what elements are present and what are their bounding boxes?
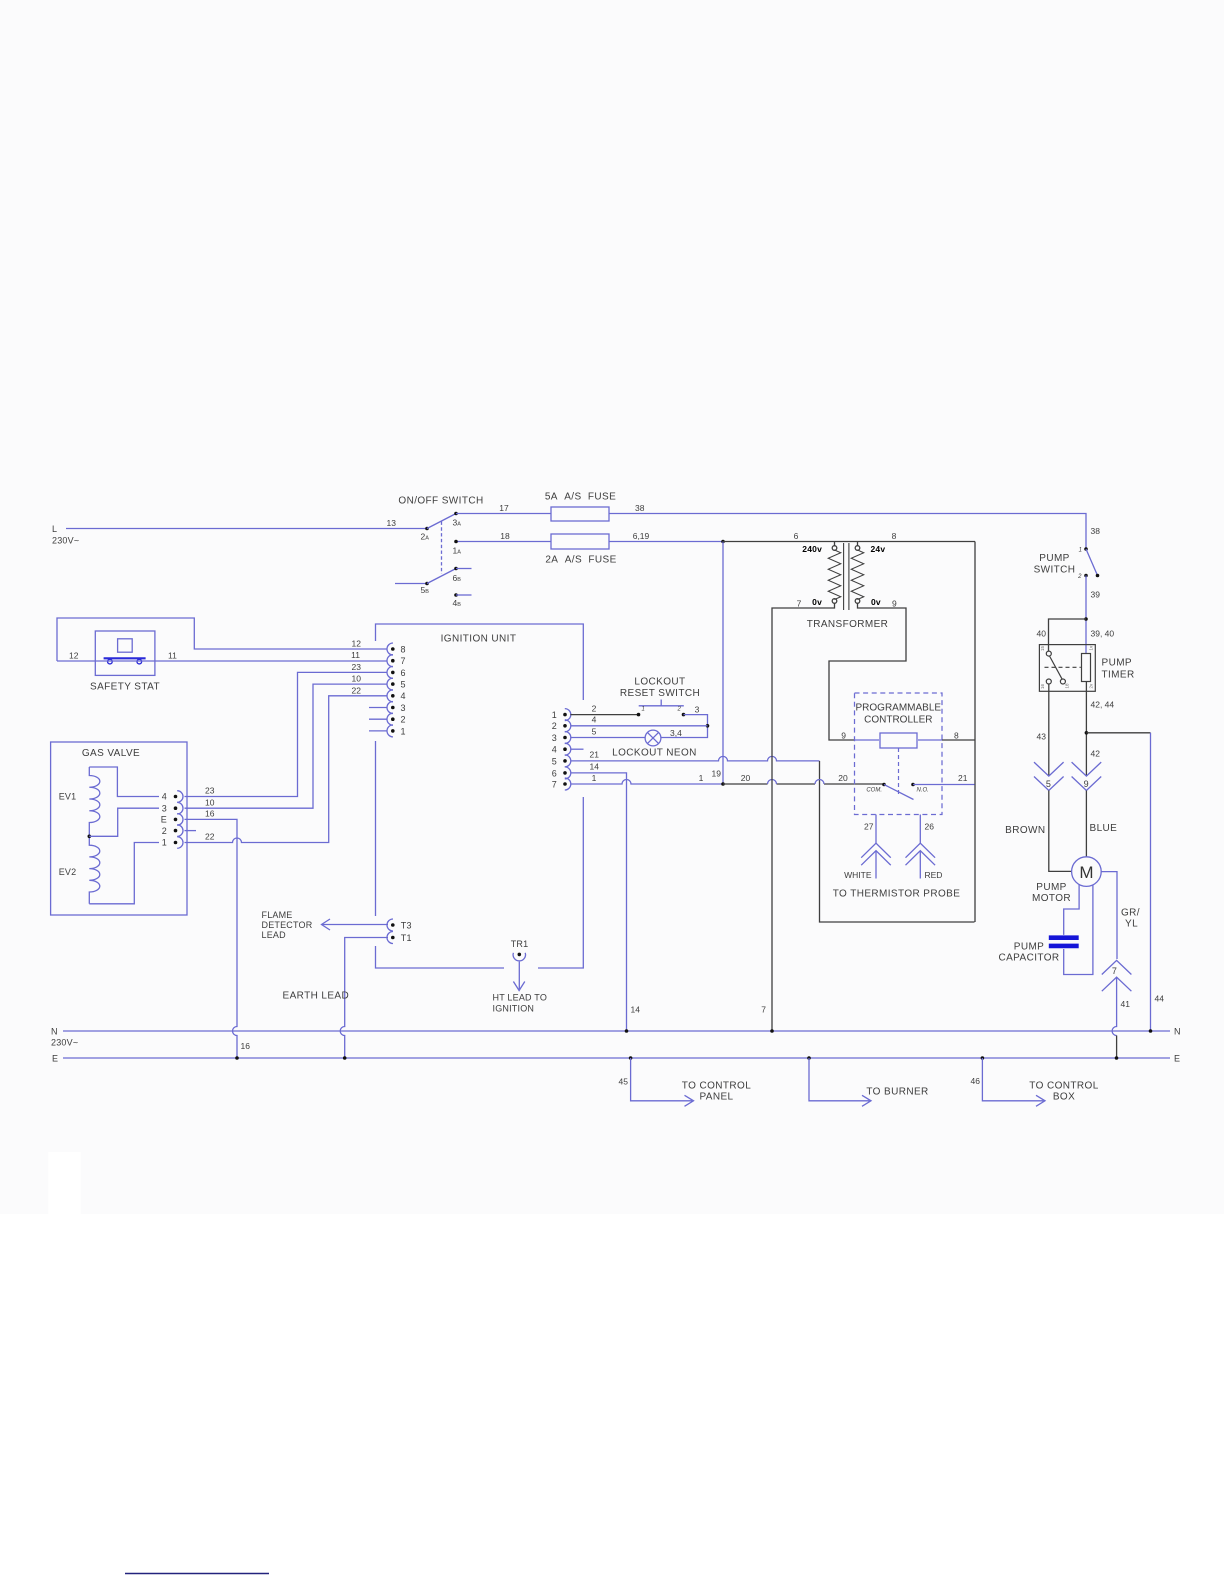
wire 17 <box>456 503 551 514</box>
svg-text:240v: 240v <box>802 544 822 554</box>
svg-text:N: N <box>1174 1027 1181 1037</box>
svg-text:EV2: EV2 <box>59 867 77 877</box>
svg-text:3: 3 <box>695 705 700 715</box>
ignition unit right pins 1-7 <box>552 709 571 790</box>
connector T3 flame detector <box>387 919 412 931</box>
svg-text:COM.: COM. <box>866 787 882 793</box>
svg-text:1: 1 <box>642 707 645 713</box>
svg-text:PUMP: PUMP <box>1036 882 1067 893</box>
svg-text:N.O.: N.O. <box>917 787 929 793</box>
svg-text:14: 14 <box>590 762 600 772</box>
svg-text:SAFETY STAT: SAFETY STAT <box>90 682 160 693</box>
lamp lockout neon <box>612 728 697 759</box>
svg-text:ON/OFF SWITCH: ON/OFF SWITCH <box>398 496 483 507</box>
svg-text:42, 44: 42, 44 <box>1091 700 1115 710</box>
svg-text:BLUE: BLUE <box>1090 823 1118 834</box>
svg-text:39, 40: 39, 40 <box>1091 629 1115 639</box>
svg-text:T3: T3 <box>401 920 412 930</box>
coil EV2 <box>59 836 100 904</box>
svg-text:3: 3 <box>552 733 557 743</box>
wire 1 ignition pin7 to node 19 <box>570 773 724 786</box>
svg-text:43: 43 <box>1037 732 1047 742</box>
svg-text:23: 23 <box>352 662 362 672</box>
svg-text:GR/: GR/ <box>1121 908 1140 919</box>
svg-text:13: 13 <box>387 518 397 528</box>
svg-text:TR1: TR1 <box>511 939 529 949</box>
wire EV1 top to terminal 4 <box>89 767 159 797</box>
pump timer box <box>1039 645 1134 692</box>
svg-text:4: 4 <box>592 715 597 725</box>
svg-text:10: 10 <box>352 674 362 684</box>
arrow to burner <box>807 1056 928 1106</box>
svg-text:24v: 24v <box>871 544 886 554</box>
svg-text:MOTOR: MOTOR <box>1032 893 1071 904</box>
wire 11 safety stat to ignition pin 7 <box>57 650 387 661</box>
svg-text:20: 20 <box>741 773 751 783</box>
connector T1 earth <box>387 932 412 944</box>
svg-text:3: 3 <box>401 703 406 713</box>
svg-text:E: E <box>1174 1054 1180 1064</box>
svg-text:1: 1 <box>552 710 557 720</box>
svg-text:4: 4 <box>401 691 406 701</box>
svg-text:6: 6 <box>552 768 557 778</box>
wire 4 ignition pin2 to node <box>570 715 707 726</box>
wire 12 safety stat to ignition pin 8 <box>57 618 387 661</box>
svg-text:M: M <box>1079 863 1093 882</box>
svg-text:FLAME: FLAME <box>262 910 293 920</box>
svg-text:5: 5 <box>592 726 597 736</box>
svg-text:BOX: BOX <box>1053 1092 1075 1103</box>
flame detector lead arrow <box>262 910 389 940</box>
svg-text:38: 38 <box>635 503 645 513</box>
svg-text:1: 1 <box>699 773 704 783</box>
svg-text:5: 5 <box>552 756 557 766</box>
svg-text:8: 8 <box>954 731 959 741</box>
wire 14 ignition pin6 to N rail <box>570 762 640 1033</box>
switch pump switch <box>1034 547 1100 580</box>
svg-text:38: 38 <box>1091 526 1101 536</box>
label to thermistor probe <box>833 889 961 900</box>
svg-text:0v: 0v <box>871 597 881 607</box>
svg-text:2v: 2v <box>1088 683 1093 689</box>
svg-text:22: 22 <box>352 685 362 695</box>
pump capacitor wires <box>1064 884 1093 974</box>
svg-text:2: 2 <box>552 721 557 731</box>
fuse F1 5A A/S FUSE <box>545 492 616 522</box>
svg-text:N: N <box>51 1027 58 1037</box>
svg-text:9: 9 <box>892 599 897 609</box>
connector 26 RED thermistor <box>906 815 943 881</box>
svg-text:21: 21 <box>958 773 968 783</box>
capacitor pump capacitor <box>998 938 1078 964</box>
svg-text:5: 5 <box>1046 779 1051 789</box>
svg-text:42: 42 <box>1091 749 1101 759</box>
wire 22 gas valve 1 to ignition pin 4 <box>185 685 388 842</box>
svg-text:1: 1 <box>401 726 406 736</box>
svg-text:BROWN: BROWN <box>1005 825 1045 836</box>
svg-text:8: 8 <box>892 531 897 541</box>
svg-text:2: 2 <box>1077 574 1082 580</box>
svg-text:4: 4 <box>162 792 167 802</box>
wire GR/YL pump motor to connector 7 <box>1101 872 1140 959</box>
wire 10 gas valve 3 to ignition pin 5 <box>185 674 388 809</box>
svg-text:6: 6 <box>794 531 799 541</box>
svg-text:3,4: 3,4 <box>670 728 682 738</box>
svg-text:10: 10 <box>205 797 215 807</box>
wire 38 fuse to pump switch <box>609 503 1100 549</box>
wire earth lead T1 to E rail <box>283 938 389 1060</box>
svg-text:12: 12 <box>352 639 362 649</box>
svg-text:18: 18 <box>1065 683 1070 689</box>
transformer primary winding 240v <box>802 544 841 604</box>
svg-text:1: 1 <box>592 773 597 783</box>
transformer core <box>844 543 849 610</box>
svg-text:GAS VALVE: GAS VALVE <box>82 748 140 759</box>
svg-text:2: 2 <box>592 704 597 714</box>
svg-text:6: 6 <box>401 668 406 678</box>
connector 5 brown <box>1034 762 1064 790</box>
svg-text:IGNITION UNIT: IGNITION UNIT <box>441 634 517 645</box>
svg-text:7: 7 <box>401 656 406 666</box>
svg-text:20: 20 <box>838 773 848 783</box>
switch SW1 ON/OFF SWITCH <box>387 496 484 609</box>
svg-text:7: 7 <box>552 779 557 789</box>
coil EV1 <box>59 767 100 836</box>
svg-text:HT LEAD TO: HT LEAD TO <box>493 993 548 1003</box>
wire 8 transformer 24v to controller <box>918 542 975 923</box>
svg-text:PUMP: PUMP <box>1014 942 1045 953</box>
svg-text:TIMER: TIMER <box>1102 670 1135 681</box>
svg-text:LOCKOUT: LOCKOUT <box>634 677 685 688</box>
wire 19 fused feed down to node 19 <box>712 542 723 785</box>
svg-text:3: 3 <box>162 803 167 813</box>
svg-text:1: 1 <box>162 838 167 848</box>
svg-text:CONTROLLER: CONTROLLER <box>864 715 932 726</box>
svg-text:2A A/S FUSE: 2A A/S FUSE <box>545 555 616 566</box>
svg-text:44: 44 <box>1155 994 1165 1004</box>
svg-text:45: 45 <box>619 1077 629 1087</box>
svg-text:DETECTOR: DETECTOR <box>262 920 313 930</box>
wire stub ignition pin4 <box>570 748 583 750</box>
svg-text:PUMP: PUMP <box>1039 553 1070 564</box>
ignition unit box <box>376 624 584 968</box>
svg-text:15: 15 <box>1040 645 1045 651</box>
ignition unit left pins 8-1 <box>369 643 406 737</box>
wire 20 node to controller COM <box>723 773 884 784</box>
wire 3 reset switch to node 3,4 <box>661 705 709 738</box>
svg-text:EV1: EV1 <box>59 792 77 802</box>
svg-text:TRANSFORMER: TRANSFORMER <box>807 619 889 630</box>
relay contacts COM N.O. <box>866 783 929 800</box>
wire E rail earth <box>52 1054 1180 1064</box>
relay coil controller <box>880 733 917 795</box>
wire brown to pump motor <box>1005 791 1071 872</box>
svg-text:IGNITION: IGNITION <box>493 1004 535 1014</box>
wire 21 N.O. to routing <box>913 773 975 785</box>
svg-text:23: 23 <box>205 786 215 796</box>
svg-text:4: 4 <box>552 745 557 755</box>
svg-text:17: 17 <box>499 503 509 513</box>
connector 7 earth <box>1102 960 1132 991</box>
connector 27 WHITE thermistor <box>844 815 891 881</box>
svg-text:TO BURNER: TO BURNER <box>866 1087 928 1098</box>
wire 16 gas valve E to E rail <box>185 809 251 1060</box>
svg-text:19: 19 <box>712 769 722 779</box>
wire 44 to N rail <box>1086 733 1164 1033</box>
svg-text:WHITE: WHITE <box>844 870 872 880</box>
wire 21 routing to controller N.O. <box>820 761 975 922</box>
svg-text:SWITCH: SWITCH <box>1034 565 1076 576</box>
wire 2 ignition pin1 to reset switch <box>570 704 640 717</box>
svg-text:7: 7 <box>797 599 802 609</box>
wire 23 gas valve 4 to ignition pin 6 <box>185 662 388 797</box>
svg-text:L: L <box>52 524 57 534</box>
wire 40 branch to timer <box>1037 619 1086 651</box>
svg-text:9: 9 <box>1084 779 1089 789</box>
svg-text:39: 39 <box>1091 590 1101 600</box>
svg-text:T1: T1 <box>401 933 412 943</box>
svg-text:26: 26 <box>925 822 935 832</box>
svg-text:5A A/S FUSE: 5A A/S FUSE <box>545 492 616 503</box>
svg-text:1v: 1v <box>1088 645 1093 651</box>
svg-text:PANEL: PANEL <box>699 1092 733 1103</box>
svg-text:RED: RED <box>925 870 943 880</box>
svg-text:PUMP: PUMP <box>1102 658 1133 669</box>
arrow 45 to control panel <box>619 1056 752 1106</box>
svg-text:11: 11 <box>351 650 360 660</box>
wire 41 to E rail <box>1112 977 1130 1060</box>
svg-text:E: E <box>161 815 167 825</box>
pump timer contacts and motor resistor <box>1040 645 1094 689</box>
programmable controller dashed box <box>855 693 943 815</box>
footer rule <box>125 1573 269 1575</box>
wire 9 transformer 0v to controller <box>829 597 906 741</box>
wire 5 ignition pin3 to neon <box>570 726 645 737</box>
wire L rail 230V <box>52 524 427 546</box>
svg-text:16: 16 <box>1040 683 1045 689</box>
node EV1-EV2 junction to terminal 3 <box>88 808 160 838</box>
wire 6-8 transformer primary feed <box>723 531 975 546</box>
svg-text:TO CONTROL: TO CONTROL <box>682 1081 751 1092</box>
fuse F2 2A A/S FUSE <box>545 534 616 566</box>
svg-text:2: 2 <box>677 707 682 713</box>
svg-text:230V~: 230V~ <box>52 536 79 546</box>
svg-text:9: 9 <box>841 731 846 741</box>
arrow 46 to control box <box>971 1056 1099 1106</box>
svg-text:18: 18 <box>500 531 510 541</box>
wire 39 pump switch to timer <box>1084 576 1114 654</box>
wire 43 timer to connector 5 <box>1037 684 1049 776</box>
svg-text:YL: YL <box>1125 919 1138 930</box>
svg-text:27: 27 <box>864 822 874 832</box>
svg-text:40: 40 <box>1037 629 1047 639</box>
wire 21 ignition pin5 segment <box>570 750 819 761</box>
connector TR1 HT lead <box>493 939 548 1014</box>
svg-text:41: 41 <box>1121 999 1131 1009</box>
svg-text:5: 5 <box>401 680 406 690</box>
svg-text:RESET SWITCH: RESET SWITCH <box>620 688 700 699</box>
svg-text:TO THERMISTOR PROBE: TO THERMISTOR PROBE <box>833 889 961 900</box>
svg-text:1: 1 <box>1079 548 1082 554</box>
svg-text:E: E <box>52 1054 58 1064</box>
transformer secondary winding 24v <box>807 544 889 630</box>
svg-text:7: 7 <box>1112 966 1117 976</box>
svg-text:22: 22 <box>205 832 215 842</box>
svg-text:8: 8 <box>401 644 406 654</box>
svg-text:7: 7 <box>761 1005 766 1015</box>
wire N rail 230V <box>51 1027 1181 1048</box>
svg-text:CAPACITOR: CAPACITOR <box>998 953 1059 964</box>
wire 18 <box>453 531 552 556</box>
thermostat SAFETY STAT <box>90 631 160 693</box>
connector 9 blue <box>1072 762 1102 790</box>
svg-text:6,19: 6,19 <box>633 531 650 541</box>
svg-text:PROGRAMMABLE: PROGRAMMABLE <box>856 703 942 714</box>
svg-text:LOCKOUT NEON: LOCKOUT NEON <box>612 747 697 758</box>
svg-text:16: 16 <box>205 809 215 819</box>
svg-text:11: 11 <box>168 651 177 661</box>
gas valve terminals 4 3 E 2 1 <box>161 791 196 849</box>
svg-text:14: 14 <box>631 1005 641 1015</box>
svg-text:16: 16 <box>241 1041 251 1051</box>
svg-text:46: 46 <box>971 1076 981 1086</box>
svg-text:230V~: 230V~ <box>51 1038 78 1048</box>
svg-text:LEAD: LEAD <box>262 930 287 940</box>
svg-text:0v: 0v <box>812 597 822 607</box>
gas valve box <box>51 742 187 915</box>
pump motor M <box>1032 857 1101 904</box>
svg-text:TO CONTROL: TO CONTROL <box>1029 1081 1098 1092</box>
wire EV2 bottom to terminal 1 <box>89 843 159 904</box>
svg-text:12: 12 <box>69 651 79 661</box>
svg-text:EARTH LEAD: EARTH LEAD <box>283 991 350 1002</box>
svg-text:21: 21 <box>590 750 600 760</box>
svg-text:2: 2 <box>162 826 167 836</box>
wire 42 timer to connector 9 <box>1085 682 1115 777</box>
wire 7 transformer 0v to N rail <box>761 597 834 1033</box>
switch lockout reset switch <box>620 677 700 713</box>
wire 6,19 fuse to transformer feed <box>609 531 725 543</box>
wire blue to pump motor <box>1086 791 1117 857</box>
svg-text:2: 2 <box>401 715 406 725</box>
